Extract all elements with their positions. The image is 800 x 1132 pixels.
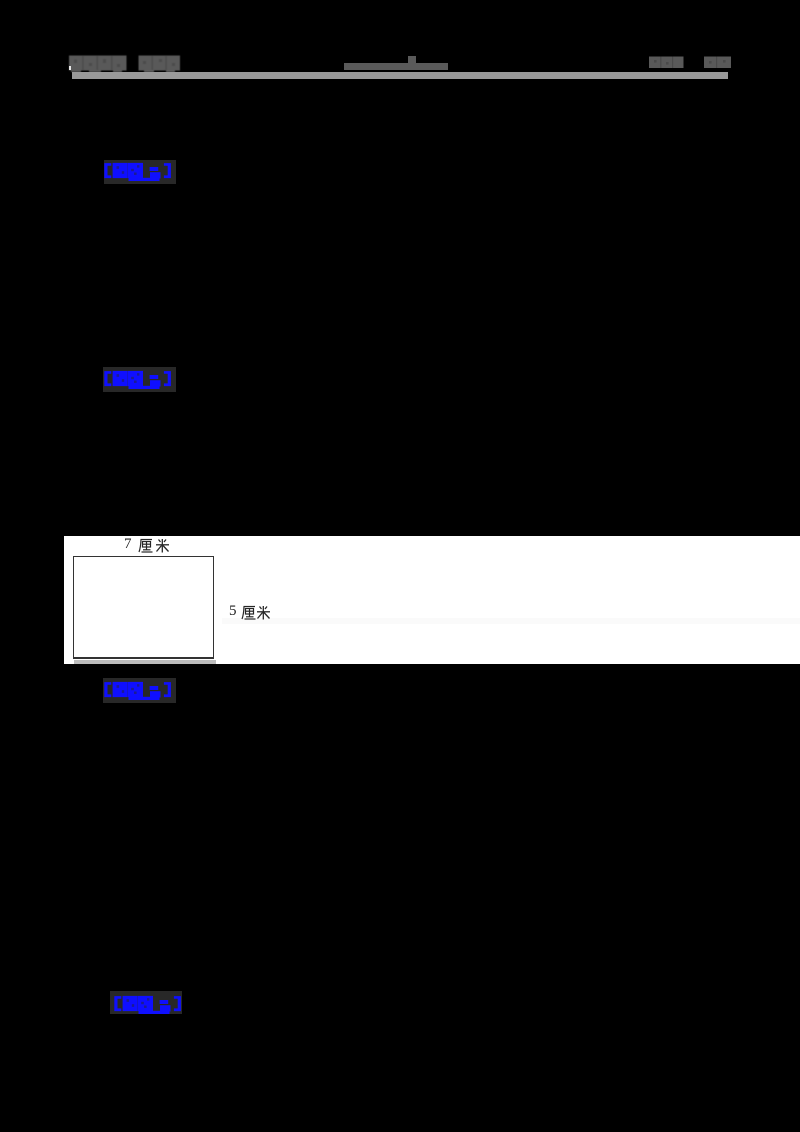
diagram white band [64, 536, 800, 664]
label 5 centimeters [229, 604, 237, 619]
rectangle 7x5 diagram [73, 556, 214, 659]
header center tall glyph [408, 56, 416, 64]
header rule [72, 72, 728, 79]
label 7 centimeters [124, 537, 132, 552]
header white speck [69, 66, 71, 70]
answer tag 2 blue text [104, 370, 171, 395]
glyph li (7) [138, 538, 154, 558]
answer tag 1 blue text [104, 162, 171, 187]
header center text blob [344, 63, 448, 70]
answer tag 4 blue text [114, 995, 181, 1020]
rectangle bottom shadow strip [74, 660, 217, 664]
faint row boundary streak on band [222, 618, 800, 625]
glyph mi (5) [256, 605, 271, 625]
glyph li (5) [241, 605, 257, 625]
answer tag 3 box [103, 678, 176, 703]
glyph mi (7) [155, 538, 170, 558]
answer tag 3 blue text [104, 681, 171, 706]
header right page-number blobs [649, 56, 732, 74]
answer tag 1 box [104, 160, 176, 184]
answer tag 2 box [103, 367, 176, 392]
header left text blob [69, 55, 184, 78]
answer tag 4 box [110, 991, 182, 1015]
